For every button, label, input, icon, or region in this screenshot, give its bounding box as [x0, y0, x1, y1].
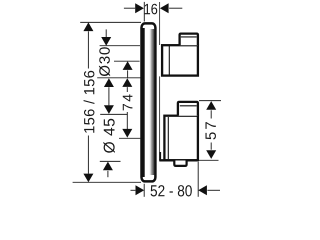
dim D57 lower tail — [210, 143, 212, 150]
dim D156 top extension line — [80, 21, 141, 23]
dim D45 top extension line — [97, 77, 140, 79]
dim D30 top extension line — [100, 45, 140, 47]
dim D52-80 right extension line — [197, 162, 199, 197]
dim D156 top arrow — [83, 22, 93, 31]
dim D74 upper tail — [126, 87, 128, 92]
handle H2 wall stub — [159, 152, 161, 160]
dim D52-80 left tail — [131, 189, 136, 191]
handle H2 body (bottom) — [164, 116, 198, 161]
dim D57 down-arrow — [206, 150, 216, 159]
dim D52-80 left extension line — [143, 184, 145, 197]
handle H2 bottom edge to wall — [159, 159, 199, 161]
dim D45 mid extension line — [100, 113, 127, 115]
dim D156 line upper — [87, 31, 89, 68]
plate front rim thick edge — [142, 28, 144, 177]
dim D156 label — [84, 71, 95, 133]
dim D156 bottom arrow — [83, 174, 93, 183]
dim D16 left arrow — [135, 3, 144, 13]
dim D16 left tail — [124, 7, 135, 9]
dim D74 label — [123, 94, 133, 110]
dim D16 right tail — [169, 7, 182, 9]
handle H1 grip step — [180, 34, 198, 46]
dim D30 label — [99, 47, 110, 76]
dim D74 bottom extension line — [119, 137, 141, 139]
dim D52-80 right tail — [207, 189, 220, 191]
dim D57 bottom extension line — [199, 159, 219, 161]
handle H2 bottom tab — [174, 161, 186, 166]
dim D57 up-arrow — [206, 101, 216, 110]
wall line — [159, 2, 161, 161]
dim D16 right arrow — [160, 3, 169, 13]
dim D30 bottom arrow tail — [127, 70, 129, 77]
dim D45 upper up-arrow — [104, 78, 114, 87]
dim D57 upper tail — [210, 110, 212, 118]
dim D30 top arrow tail — [105, 29, 107, 37]
dim D156 line lower — [87, 136, 89, 174]
dim D52-80 left arrow — [136, 185, 145, 195]
dim D45 lower up-arrow — [103, 162, 113, 171]
dim D30 bottom arrow — [123, 61, 133, 70]
handle H2 grip step — [178, 102, 198, 116]
dim D30 top arrow — [101, 37, 111, 46]
dim D45 upper line — [108, 87, 110, 105]
dim D16 left extension line — [143, 2, 145, 22]
dim D52-80 right arrow — [198, 185, 207, 195]
dim D16 label — [145, 4, 158, 15]
handle H1 body (top) — [162, 45, 198, 75]
dim D74 up-arrow — [122, 78, 132, 87]
dim D45 label — [103, 119, 115, 153]
handle H2 grip inner line — [180, 105, 197, 107]
dim D156 bottom extension line — [73, 181, 141, 183]
handle H1 sleeve line — [168, 46, 170, 75]
dim D74 lower tail — [126, 112, 128, 129]
dim D45 upper down-arrow — [104, 105, 114, 114]
escutcheon plate (side profile, rounded slab) — [142, 23, 156, 181]
plate rim shading — [149, 29, 155, 175]
dim D30 bottom extension line — [114, 60, 140, 62]
dim D45 lower tail — [107, 171, 109, 177]
handle H2 sleeve line — [167, 117, 169, 159]
dim D74 down-arrow — [122, 129, 132, 138]
handle H1 grip inner line — [181, 36, 197, 38]
dim D57 top extension line — [199, 100, 221, 102]
dim D57 label — [205, 122, 215, 139]
dim D52-80 label — [151, 185, 192, 196]
dim D45 bottom extension line — [100, 160, 121, 162]
